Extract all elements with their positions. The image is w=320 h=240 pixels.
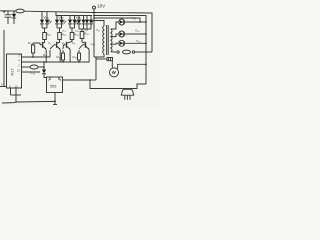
terminal 18V — [93, 6, 96, 9]
ground — [53, 104, 57, 106]
diode VD14 — [119, 19, 146, 25]
capacitor C1 — [3, 10, 12, 24]
svg-text:VD7: VD7 — [62, 31, 66, 33]
LED group bracket 1 — [41, 12, 43, 20]
LED VD7 pair — [77, 20, 86, 29]
zener diode VD1 — [12, 11, 16, 24]
lamp left lead — [111, 61, 113, 68]
transistor V7 — [40, 40, 46, 63]
right bus dots — [145, 21, 147, 23]
wire pin 14 — [0, 86, 7, 88]
svg-text:VD8: VD8 — [75, 31, 79, 33]
diode VD9 — [42, 62, 47, 78]
555 box U2 — [47, 77, 63, 93]
svg-text:14: 14 — [1, 83, 4, 87]
svg-text:4017: 4017 — [11, 68, 15, 76]
transformer primary bottom lead — [94, 54, 104, 57]
svg-text:13: 13 — [15, 84, 18, 88]
lamp HL circle — [110, 68, 119, 77]
wire loop bottom — [137, 84, 146, 89]
resistor R18 oval — [30, 65, 38, 69]
fuse FU1 — [16, 9, 24, 13]
transistor V9 — [63, 40, 72, 63]
fuse FU2 — [123, 50, 131, 54]
svg-text:M: M — [112, 71, 115, 75]
wire left edge vertical — [3, 30, 5, 87]
junction dots — [43, 61, 45, 63]
IC pin stub 13 — [22, 71, 41, 73]
LED VD5 pair — [55, 20, 66, 33]
wire 555 bottom pin — [54, 93, 56, 105]
svg-text:13: 13 — [17, 69, 20, 73]
resistor R21 — [43, 33, 47, 40]
transistor V8 — [50, 40, 60, 63]
wire transformer primary top lead — [94, 21, 104, 27]
wire transformer bottom drop — [95, 59, 97, 80]
wire 18V drop — [93, 9, 95, 57]
IC pin stub 2 — [22, 66, 31, 68]
IC pin stub 3 — [22, 56, 51, 58]
svg-text:VD9: VD9 — [84, 30, 88, 32]
resistor R16 — [32, 45, 35, 53]
wire nested rail 3 — [94, 18, 140, 22]
wire top rail middle — [24, 11, 94, 12]
LED group bracket 2 — [56, 12, 92, 16]
wire top rail left — [0, 10, 16, 12]
transistor V10 — [79, 39, 89, 63]
transformer T1 left coil — [103, 26, 104, 54]
plug X1 — [107, 58, 113, 61]
svg-text:18V: 18V — [97, 4, 106, 9]
wire bottom rail — [2, 101, 55, 103]
wire nested rail 2 — [94, 16, 146, 85]
speaker B — [120, 89, 137, 100]
resistor R22 — [58, 33, 62, 40]
transformer right coil — [111, 29, 112, 52]
resistor R20 hanging — [78, 50, 81, 62]
diode VD15 — [119, 31, 146, 37]
LED VD8 pair — [79, 20, 94, 32]
lamp right lead — [118, 64, 146, 69]
resistor R19 hanging — [62, 50, 65, 62]
wire down to speaker line — [90, 80, 120, 89]
transformer core — [106, 25, 108, 55]
transformer secondary taps — [111, 22, 118, 29]
IC bottom pins — [10, 88, 12, 95]
wire top rail right — [94, 13, 152, 53]
IC U1 4017 box — [7, 54, 22, 88]
switch S1 — [117, 51, 119, 53]
diode VD16 — [119, 40, 146, 46]
resistor R23 — [70, 33, 74, 40]
LED VD4 pair — [40, 20, 52, 33]
LED VD6 pair — [68, 20, 79, 33]
IC pin stub 4 — [22, 61, 90, 63]
wire 555 out right — [63, 79, 91, 81]
wire riser base V8 — [49, 50, 51, 57]
svg-text:555: 555 — [50, 85, 56, 89]
resistor R24 — [80, 32, 84, 39]
